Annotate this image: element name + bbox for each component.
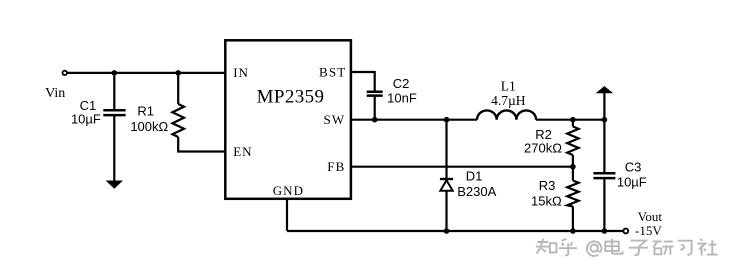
svg-text:C2: C2 [393,76,410,91]
watermark char dian [605,239,622,254]
svg-text:100kΩ: 100kΩ [130,119,168,134]
svg-text:IN: IN [233,65,249,80]
watermark char zi [629,241,648,256]
svg-text:SW: SW [324,112,346,127]
wire R3 bottom lead [572,206,574,231]
op-amp U1 MP2359 IC body [225,40,351,199]
wire FB rail [351,166,573,168]
node C3-SW junction [602,117,608,123]
wire SW rail left of L1 [351,119,477,121]
watermark char she [697,239,717,256]
wire C2 bottom lead [374,95,376,119]
svg-text:R3: R3 [539,178,556,193]
svg-text:R1: R1 [137,104,154,119]
svg-text:Vin: Vin [45,86,65,101]
wire C1 bottom lead [113,115,115,181]
terminal Vout [623,229,628,234]
watermark char zhi [536,239,549,254]
svg-text:C3: C3 [625,159,642,174]
terminal Vin [62,71,66,75]
wire C1 top lead [113,73,115,110]
ground top right [597,87,612,93]
svg-text:GND: GND [273,183,304,198]
svg-text:4.7µH: 4.7µH [491,93,526,108]
watermark char hu [559,239,577,256]
capacitor C2 plates [367,92,383,96]
wire R3 top lead [572,167,574,181]
inductor L1 humps [477,110,536,119]
wire C3 bottom lead [603,179,605,231]
wire D1 top lead [445,120,447,179]
node D1-rail junction [444,228,450,234]
wire BST pin to C2 [351,72,375,91]
watermark char xi [678,241,692,255]
svg-text:BST: BST [319,64,346,79]
wire R1 top lead [177,73,179,104]
node C1-input junction [112,70,118,76]
resistor R3 zigzag [567,181,578,207]
resistor R2 zigzag [567,127,578,156]
svg-text:L1: L1 [501,79,516,94]
svg-text:10nF: 10nF [387,90,417,105]
ground below C1 [107,181,122,188]
diode D1 B230A [440,179,453,191]
watermark char yan [653,241,674,254]
node D1-SW junction [444,117,450,123]
capacitor C1 plates [103,110,125,115]
svg-text:B230A: B230A [457,184,496,199]
wire C3 top lead [603,120,605,173]
wire R2 top lead [572,120,574,127]
svg-text:10µF: 10µF [71,112,101,127]
node R2-SW junction [570,117,576,123]
node R3-rail junction [570,228,576,234]
node FB divider junction [570,164,576,170]
wire D1 bottom lead [445,191,447,231]
watermark zhihu [536,239,718,256]
svg-text:EN: EN [233,144,252,159]
capacitor C3 plates [593,173,615,178]
node R1-input junction [175,70,181,76]
wire bottom -15V rail [287,230,623,232]
svg-text:R2: R2 [535,127,552,142]
svg-text:MP2359: MP2359 [257,87,325,108]
node C3-rail junction [602,228,608,234]
wire SW rail right of L1 [536,119,604,121]
svg-text:FB: FB [327,159,345,174]
wire Vin input rail [67,72,227,74]
watermark at-sign [587,241,602,256]
resistor R1 zigzag [172,104,184,137]
svg-text:15kΩ: 15kΩ [531,193,562,208]
svg-text:D1: D1 [466,168,483,183]
node C2-SW junction [372,117,378,123]
svg-text:-15V: -15V [635,223,662,238]
wire to top ground [603,93,605,120]
svg-text:C1: C1 [80,98,97,113]
svg-text:270kΩ: 270kΩ [524,141,562,156]
wire GND pin lead [286,199,288,231]
svg-text:10µF: 10µF [617,174,647,189]
wire R1 bottom lead to EN pin [178,137,226,152]
wire R2 bottom lead [572,155,574,167]
